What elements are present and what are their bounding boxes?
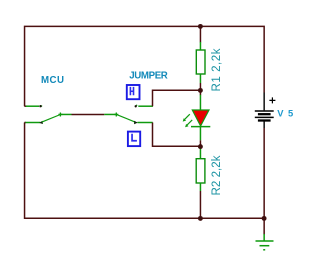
LED D1 cathode bar: [191, 126, 210, 128]
resistor R1 body: [196, 50, 205, 74]
jumper pin cross left: [58, 112, 62, 116]
ground bar 1: [256, 240, 274, 242]
jumper blade right diagonal: [116, 114, 135, 121]
open end mark H pin: [136, 104, 137, 107]
battery bottom lead (black): [263, 121, 265, 128]
jumper middle wire green right: [104, 113, 116, 115]
wire MCU lower left edge + bottom rail: [25, 123, 265, 219]
resistor R1 pin bottom (green): [199, 74, 201, 83]
battery plate 1 long: [255, 110, 274, 112]
ground bar 3: [263, 249, 265, 251]
open end mark upper MCU pin: [41, 105, 42, 108]
H contact pin (green, open end): [138, 105, 153, 107]
wire top power rail: [25, 26, 265, 106]
junction node H / R1 bottom: [198, 88, 203, 93]
wire LED bottom lead (dark red): [199, 140, 201, 146]
svg-text:R2 2,2k: R2 2,2k: [211, 155, 223, 195]
jumper blade right arrowhead: [134, 121, 138, 124]
wire LED top lead (dark red): [199, 90, 201, 95]
ground bar 2: [260, 245, 270, 247]
battery plate 2 short thick: [258, 113, 271, 115]
junction node top rail: [198, 24, 203, 29]
LED D1 triangle: [192, 110, 209, 126]
wire L node green: [137, 122, 152, 124]
jumper common pin (green): [25, 122, 40, 124]
wire ground lead: [263, 218, 265, 234]
resistor R2 body: [196, 159, 205, 183]
svg-text:MCU: MCU: [41, 75, 64, 86]
LED emission arrow 1: [184, 114, 190, 120]
wire R1 top lead (dark red): [199, 26, 201, 42]
junction node R2 bottom rail: [198, 216, 203, 221]
resistor R2 pin top (green): [199, 148, 201, 159]
battery plus sign: [269, 97, 275, 103]
wire R1 bottom lead (dark red): [199, 83, 201, 90]
jumper pin cross right: [114, 112, 118, 116]
wire R2 bottom lead (dark red): [199, 191, 201, 218]
wire jumper middle (dark red): [72, 113, 105, 115]
wire L node down and right: [153, 123, 201, 147]
net label letter L: [131, 134, 137, 142]
wire lower MCU stub: [24, 122, 26, 124]
battery V1 top lead (black): [263, 93, 265, 111]
svg-text:R1 2,2k: R1 2,2k: [211, 48, 223, 91]
net label box H: [127, 85, 140, 99]
LED D1 anode pin (green): [199, 95, 201, 110]
battery plate 4 short thick: [258, 119, 271, 121]
resistor R1 pin top (green): [199, 42, 201, 50]
jumper blade left diagonal: [42, 115, 61, 123]
junction node L / LED cathode: [198, 144, 203, 149]
LED D1 cathode pin (green): [199, 127, 201, 141]
junction node ground rail: [262, 216, 267, 221]
battery plate 3 long: [255, 116, 274, 118]
MCU pin upper (green, open end): [26, 105, 39, 107]
net label letter H: [130, 87, 135, 95]
wire battery to bottom rail: [263, 128, 265, 218]
svg-text:JUMPER: JUMPER: [129, 71, 168, 82]
net label box L: [128, 132, 140, 147]
svg-text:V 5: V 5: [277, 107, 293, 118]
jumper blade left arrowhead: [39, 121, 43, 124]
jumper middle wire green left: [60, 113, 71, 115]
wire H node up and right: [153, 90, 201, 106]
wire upper MCU foot stub: [24, 105, 26, 107]
LED emission arrow 2: [187, 120, 193, 126]
ground pin (green): [263, 234, 265, 241]
resistor R2 pin bottom (green): [199, 183, 201, 191]
